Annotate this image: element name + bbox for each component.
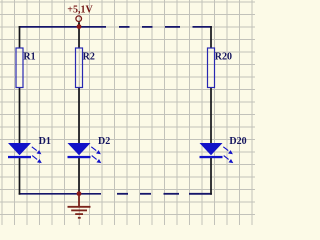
- svg-text:R1: R1: [23, 52, 35, 63]
- wire column 2 pins: [78, 27, 80, 194]
- svg-text:+5,1V: +5,1V: [67, 5, 93, 16]
- wire bottom rail dashed: [117, 193, 212, 195]
- svg-text:R20: R20: [215, 52, 232, 63]
- resistor R20: [208, 48, 215, 88]
- power port circle: [76, 16, 82, 22]
- svg-text:D20: D20: [229, 136, 246, 147]
- resistor R1: [16, 48, 23, 88]
- LED D20: [200, 143, 234, 163]
- junction top: [77, 24, 82, 29]
- wire top rail dashed: [119, 26, 212, 28]
- sheet background: [0, 0, 255, 225]
- junction bottom: [77, 191, 82, 196]
- power port stem wire: [78, 22, 80, 27]
- LED D2: [68, 143, 102, 163]
- wire column 1 pins: [19, 26, 21, 195]
- LED D1: [8, 143, 42, 163]
- wire top rail solid: [19, 26, 106, 28]
- wire bottom rail solid: [19, 193, 101, 195]
- svg-text:D1: D1: [39, 136, 51, 147]
- ground: [68, 196, 91, 218]
- resistor R2: [76, 48, 83, 88]
- wire column 3 pins: [210, 26, 212, 195]
- svg-text:D2: D2: [98, 136, 110, 147]
- svg-text:R2: R2: [83, 52, 95, 63]
